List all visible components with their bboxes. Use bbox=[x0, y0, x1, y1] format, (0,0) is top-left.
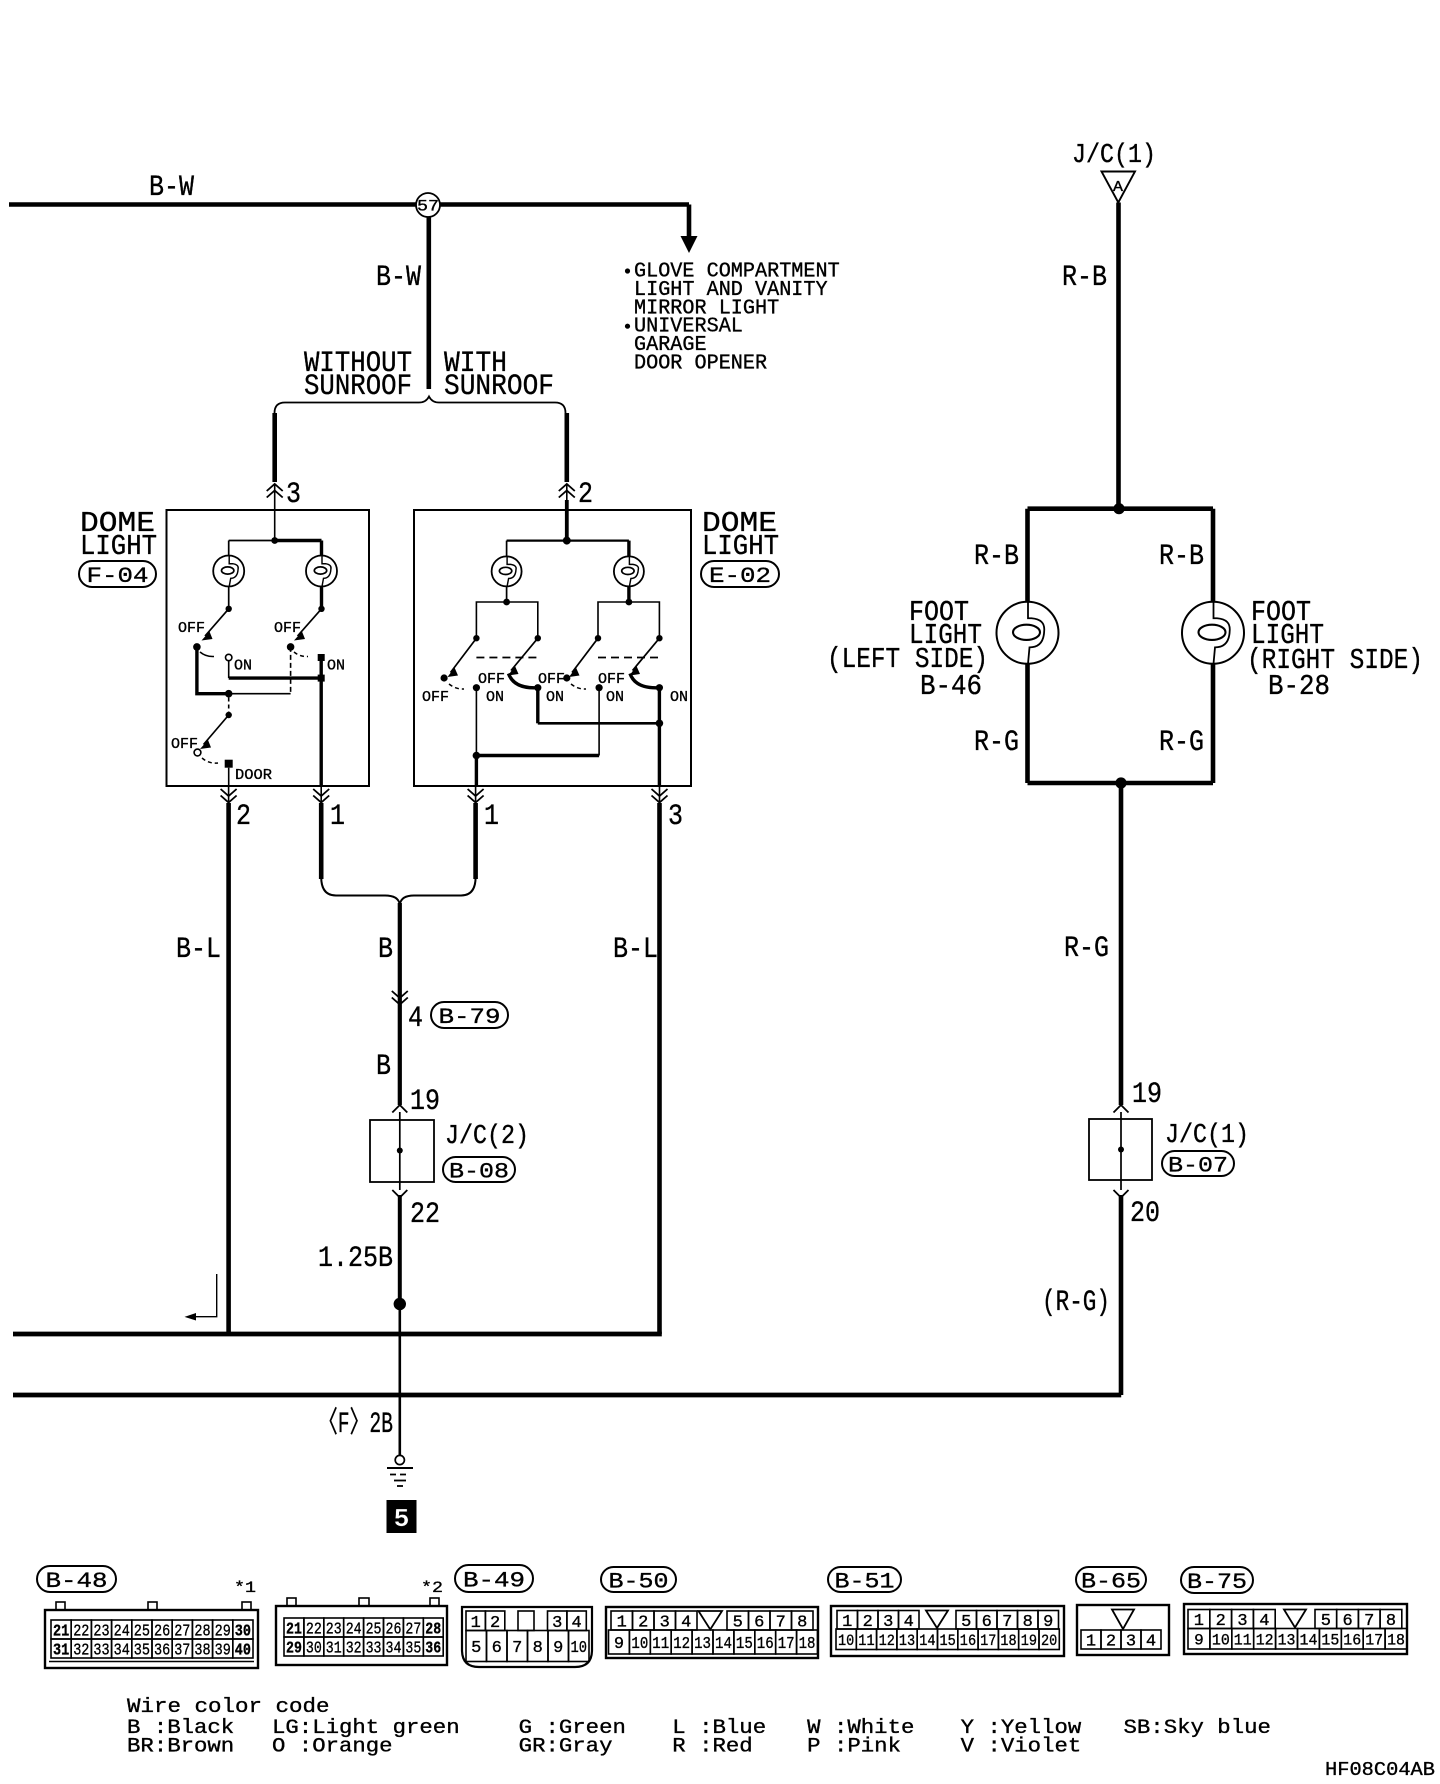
connector pin 2 chevron (E-02 entry) bbox=[559, 484, 575, 498]
switch E-02 sw2: fixed contact bbox=[535, 635, 541, 641]
svg-text:J/C(2): J/C(2) bbox=[445, 1121, 529, 1151]
node: E-02 right lamp split bbox=[626, 599, 633, 606]
wire E-02 sw2 ON drop bbox=[536, 688, 539, 724]
lamp E-02 left bulb bbox=[506, 541, 508, 557]
svg-text:DOOR OPENER: DOOR OPENER bbox=[634, 353, 767, 376]
svg-text:9: 9 bbox=[553, 1639, 563, 1658]
contact ON (F-04 left sw) bbox=[226, 654, 232, 660]
switch F-04 right: blade to OFF bbox=[298, 609, 322, 636]
svg-text:10: 10 bbox=[838, 1632, 854, 1650]
svg-text:4: 4 bbox=[1146, 1633, 1156, 1652]
svg-text:ON: ON bbox=[670, 690, 688, 706]
wire F-04 pin2 drop (door feed) bbox=[228, 768, 230, 786]
connector pin 3 chevron (E-02 bottom) bbox=[652, 789, 668, 803]
ground symbol body 5 bbox=[395, 1455, 404, 1464]
switch E-02 sw1: fixed contact bbox=[473, 635, 479, 641]
svg-text:1: 1 bbox=[330, 799, 345, 833]
connector ref B-50 bbox=[601, 1567, 676, 1592]
svg-text:14: 14 bbox=[1300, 1632, 1318, 1650]
svg-text:33: 33 bbox=[93, 1642, 109, 1661]
switch E-02 sw1: pivot bbox=[441, 674, 448, 681]
connector ref F-04 bbox=[79, 561, 156, 587]
svg-text:(R-G): (R-G) bbox=[1042, 1285, 1110, 1319]
svg-text:20: 20 bbox=[1130, 1196, 1160, 1230]
wire F-04 left pivot to lower bus bbox=[197, 647, 229, 694]
connector *2 pinout bbox=[276, 1606, 447, 1665]
node: foot light feed split bbox=[1113, 503, 1124, 514]
wire B (joined dome light return) bbox=[398, 903, 402, 1105]
svg-text:19: 19 bbox=[1021, 1632, 1037, 1650]
svg-text:8: 8 bbox=[533, 1639, 543, 1658]
svg-text:ON: ON bbox=[327, 659, 345, 675]
svg-text:R :Red: R :Red bbox=[672, 1736, 752, 1759]
ground bus 2 (foot lights) bbox=[13, 1393, 1121, 1398]
svg-text:10: 10 bbox=[571, 1639, 588, 1658]
svg-text:7: 7 bbox=[512, 1639, 522, 1658]
wire B-W main feed (horizontal) bbox=[9, 202, 689, 207]
wire B-L left (F-04 pin2 to ground bus) bbox=[226, 803, 231, 1334]
junction triangle A bbox=[1102, 172, 1136, 203]
svg-text:12: 12 bbox=[673, 1635, 690, 1654]
svg-text:10: 10 bbox=[631, 1635, 648, 1654]
svg-text:1: 1 bbox=[484, 799, 499, 833]
svg-text:2: 2 bbox=[578, 477, 593, 511]
svg-text:9: 9 bbox=[1194, 1632, 1204, 1650]
wire (R-G) (J/C(1) to ground bus 2) bbox=[1119, 1195, 1124, 1395]
svg-text:Wire color code: Wire color code bbox=[127, 1696, 330, 1719]
travel line E-02 left pair bbox=[476, 657, 537, 659]
svg-text:36: 36 bbox=[154, 1642, 170, 1661]
svg-text:38: 38 bbox=[194, 1642, 210, 1661]
svg-text:19: 19 bbox=[1132, 1077, 1162, 1111]
svg-text:2: 2 bbox=[1106, 1633, 1116, 1652]
svg-text:B-51: B-51 bbox=[835, 1569, 895, 1595]
wire without-sunroof branch (B-W) bbox=[272, 413, 277, 482]
node: E-02 pin3 junction bbox=[656, 720, 664, 728]
merge brace (pins 1 join to wire B) bbox=[321, 877, 400, 904]
wire E-02 pin1 drop (B) bbox=[473, 803, 478, 879]
svg-text:11: 11 bbox=[1234, 1632, 1252, 1650]
svg-text:F-04: F-04 bbox=[87, 563, 149, 589]
switch F-04 right: moving contact bbox=[318, 606, 324, 612]
svg-text:15: 15 bbox=[940, 1632, 956, 1650]
switch F-04 left: moving contact bbox=[226, 606, 232, 612]
svg-text:LIGHT: LIGHT bbox=[80, 530, 157, 563]
svg-text:11: 11 bbox=[858, 1632, 874, 1650]
svg-text:18: 18 bbox=[799, 1635, 816, 1654]
connector ref B-51 bbox=[828, 1567, 901, 1592]
wire E-02 sw4 ON to pin3 bbox=[658, 688, 661, 786]
contact ON (F-04 right sw) bbox=[318, 654, 325, 661]
wire R-G (foot lights to J/C(1)) bbox=[1119, 783, 1124, 1105]
svg-text:9: 9 bbox=[614, 1635, 624, 1654]
connector B-48 pinout bbox=[45, 1610, 258, 1668]
contact ON (E-02 sw2) bbox=[534, 684, 541, 691]
switch E-02 sw4: fixed contact bbox=[656, 635, 662, 641]
svg-text:BR:Brown: BR:Brown bbox=[127, 1736, 234, 1759]
wire F-04 pin1 drop (B) bbox=[319, 803, 324, 879]
switch E-02 sw4: blade (ON position) bbox=[633, 638, 660, 670]
svg-text:B-46: B-46 bbox=[920, 670, 982, 703]
svg-text:B-48: B-48 bbox=[46, 1568, 108, 1594]
wire E-02 left lamp stubs bbox=[476, 602, 537, 636]
svg-text:31: 31 bbox=[326, 1640, 342, 1659]
svg-text:R-G: R-G bbox=[1159, 725, 1204, 759]
svg-text:15: 15 bbox=[1321, 1632, 1339, 1650]
switch F-04 door: pivot bbox=[194, 749, 201, 756]
wire F-04 lamp bus bbox=[229, 540, 275, 542]
svg-text:16: 16 bbox=[757, 1635, 774, 1654]
svg-text:B-49: B-49 bbox=[463, 1568, 525, 1594]
svg-text:B-W: B-W bbox=[149, 170, 194, 204]
switch F-04 door: moving contact bbox=[226, 712, 232, 718]
svg-text:3: 3 bbox=[1126, 1633, 1136, 1652]
wire to door switch bbox=[228, 698, 230, 713]
connector B-51 pinout bbox=[831, 1606, 1064, 1656]
wire B-W vertical drop from splice 57 bbox=[426, 217, 431, 389]
connector pin 1 chevron (F-04 bottom) bbox=[313, 789, 329, 803]
svg-text:LIGHT: LIGHT bbox=[702, 530, 779, 563]
node: foot light return join bbox=[1115, 777, 1126, 788]
switch E-02 sw3: fixed contact bbox=[595, 635, 601, 641]
ground ref frame 5 bbox=[387, 1500, 417, 1533]
lamp F-04 right bulb bbox=[320, 541, 323, 557]
connector ref B-75 bbox=[1181, 1567, 1253, 1593]
svg-text:34: 34 bbox=[114, 1642, 130, 1661]
wire foot light left return (R-G) bbox=[1025, 664, 1030, 783]
wire foot light left leg (R-B) bbox=[1025, 509, 1030, 602]
ground bus 1 (dome lights) bbox=[13, 1332, 662, 1337]
svg-text:B-L: B-L bbox=[613, 932, 658, 966]
svg-text:GR:Gray: GR:Gray bbox=[519, 1736, 613, 1759]
lamp F-04 left bulb bbox=[228, 541, 230, 557]
svg-text:R-G: R-G bbox=[1064, 931, 1109, 965]
switch E-02 sw2: blade (ON position) bbox=[511, 638, 538, 670]
wire 1.25B (J/C(2) to ground) bbox=[398, 1195, 402, 1310]
switch E-02 sw3: pivot bbox=[563, 674, 570, 681]
svg-text:57: 57 bbox=[417, 198, 439, 216]
svg-text:13: 13 bbox=[899, 1632, 915, 1650]
wire E-02 sw1 ON to pin1 node bbox=[475, 688, 477, 756]
joint connector J/C(2) pin 22 chevron bbox=[392, 1190, 407, 1198]
svg-text:ON: ON bbox=[546, 690, 564, 706]
svg-text:B-75: B-75 bbox=[1187, 1569, 1247, 1595]
svg-text:OFF: OFF bbox=[598, 672, 625, 688]
switch F-04 right: pivot bbox=[287, 643, 295, 651]
page reference arrow (ground bus continues) bbox=[188, 1274, 217, 1317]
svg-text:B: B bbox=[378, 932, 393, 966]
svg-text:6: 6 bbox=[492, 1639, 502, 1658]
svg-text:R-G: R-G bbox=[974, 725, 1019, 759]
svg-text:〈F〉2B: 〈F〉2B bbox=[318, 1407, 393, 1441]
svg-text:14: 14 bbox=[715, 1635, 732, 1654]
joint connector J/C(2) pin 19 chevron bbox=[392, 1105, 407, 1113]
svg-text:*2: *2 bbox=[421, 1579, 443, 1597]
wire E-02 right lamp stubs bbox=[598, 602, 659, 636]
travel line E-02 right pair bbox=[598, 657, 659, 659]
svg-text:35: 35 bbox=[134, 1642, 150, 1661]
connector ref B-07 bbox=[1162, 1151, 1234, 1176]
connector B-49 pinout bbox=[462, 1607, 592, 1667]
svg-text:22: 22 bbox=[410, 1197, 440, 1231]
connector ref E-02 bbox=[701, 561, 779, 587]
svg-text:10: 10 bbox=[1212, 1632, 1230, 1650]
svg-text:12: 12 bbox=[879, 1632, 895, 1650]
svg-text:13: 13 bbox=[694, 1635, 711, 1654]
connector ref B-48 bbox=[37, 1566, 116, 1592]
connector B-50 pinout bbox=[606, 1607, 818, 1658]
svg-text:E-02: E-02 bbox=[709, 563, 771, 589]
switch F-04 left: blade to OFF bbox=[205, 609, 229, 636]
svg-text:17: 17 bbox=[778, 1635, 795, 1654]
dome light E-02 box bbox=[414, 510, 691, 786]
svg-text:J/C(1): J/C(1) bbox=[1165, 1120, 1249, 1150]
switch E-02 sw3: blade bbox=[572, 638, 598, 672]
wire with-sunroof branch (B-W) bbox=[564, 413, 569, 482]
label glove compartment light and vanity mirror light / universal garage door opener bbox=[625, 268, 630, 273]
svg-text:18: 18 bbox=[1387, 1632, 1405, 1650]
svg-text:35: 35 bbox=[405, 1640, 421, 1659]
svg-text:37: 37 bbox=[174, 1642, 190, 1661]
svg-text:1.25B: 1.25B bbox=[318, 1241, 393, 1275]
svg-text:13: 13 bbox=[1278, 1632, 1296, 1650]
connector ref B-79 bbox=[431, 1002, 508, 1028]
svg-text:SUNROOF: SUNROOF bbox=[444, 369, 554, 403]
svg-text:36: 36 bbox=[425, 1640, 441, 1659]
wire foot light loop top bbox=[1028, 506, 1214, 511]
contact ON (E-02 sw4) bbox=[656, 684, 663, 691]
svg-text:4: 4 bbox=[408, 1001, 423, 1035]
svg-text:1: 1 bbox=[1086, 1633, 1096, 1652]
connector pin 2 chevron (F-04 bottom) bbox=[221, 789, 237, 803]
svg-text:HF08C04AB: HF08C04AB bbox=[1325, 1759, 1435, 1781]
joint connector J/C(1) pin 20 chevron bbox=[1114, 1190, 1129, 1198]
switch F-04 door: blade to OFF bbox=[204, 715, 229, 745]
svg-text:40: 40 bbox=[235, 1642, 251, 1661]
svg-text:ON: ON bbox=[234, 659, 252, 675]
svg-text:B-65: B-65 bbox=[1081, 1569, 1141, 1595]
svg-text:OFF: OFF bbox=[274, 621, 301, 637]
svg-text:33: 33 bbox=[366, 1640, 382, 1659]
foot light right bulb (B-28) bbox=[1182, 602, 1244, 664]
wire F-04 right pivot down-left to lower bus bbox=[290, 647, 292, 694]
svg-text:R-B: R-B bbox=[1062, 260, 1107, 294]
wire foot light right leg (R-B) bbox=[1211, 509, 1216, 602]
wire E-02 pin1 drop bbox=[475, 756, 478, 787]
joint connector J/C(1) box bbox=[1089, 1119, 1152, 1180]
switch F-04 left: pivot bbox=[193, 643, 201, 651]
svg-text:SUNROOF: SUNROOF bbox=[304, 369, 412, 403]
wire foot light loop bottom bbox=[1028, 781, 1214, 786]
svg-text:B-50: B-50 bbox=[609, 1569, 669, 1595]
wire F-04 left ON to crossbar bbox=[228, 661, 230, 678]
node: E-02 pin1 junction bbox=[473, 752, 481, 760]
svg-text:B-08: B-08 bbox=[449, 1159, 509, 1185]
connector ref B-08 bbox=[443, 1157, 515, 1182]
svg-text:3: 3 bbox=[286, 477, 301, 511]
node: F-04 lower junction bbox=[225, 690, 233, 698]
svg-text:B: B bbox=[376, 1049, 391, 1083]
wire F-04 pin1 vertical (ON feed) bbox=[320, 658, 323, 787]
svg-text:15: 15 bbox=[736, 1635, 753, 1654]
svg-text:*1: *1 bbox=[234, 1579, 256, 1597]
node: F-04 pin3 internal junction bbox=[271, 537, 278, 544]
node: E-02 pin2 internal junction bbox=[563, 537, 571, 545]
svg-text:OFF: OFF bbox=[478, 672, 505, 688]
wire E-02 sw3 ON drop bbox=[598, 688, 600, 756]
connector B-79 chevron (pin 4) bbox=[392, 991, 408, 1005]
svg-text:5: 5 bbox=[394, 1504, 410, 1534]
svg-text:R-B: R-B bbox=[1159, 539, 1204, 573]
contact ON (E-02 sw1) bbox=[473, 684, 480, 691]
splice 57 bbox=[416, 193, 440, 217]
svg-text:16: 16 bbox=[960, 1632, 976, 1650]
svg-text:SB:Sky blue: SB:Sky blue bbox=[1124, 1717, 1271, 1740]
svg-text:39: 39 bbox=[215, 1642, 231, 1661]
wire E-02 pin2 entry bbox=[565, 500, 569, 541]
svg-text:18: 18 bbox=[1000, 1632, 1016, 1650]
sunroof option split brace bbox=[275, 397, 566, 414]
svg-text:31: 31 bbox=[53, 1642, 69, 1661]
connector pin 1 chevron (E-02 bottom) bbox=[468, 789, 484, 803]
svg-text:30: 30 bbox=[306, 1640, 322, 1659]
connector pin 3 chevron (F-04 entry) bbox=[267, 484, 283, 498]
wire F-04 ON crossbar bbox=[229, 676, 322, 679]
svg-text:32: 32 bbox=[73, 1642, 89, 1661]
wire E-02 lower crossbar (pin1 to sw3) bbox=[476, 754, 599, 758]
connector B-65 pinout bbox=[1077, 1605, 1169, 1655]
svg-text:DOOR: DOOR bbox=[235, 767, 272, 784]
joint connector J/C(1) pin 19 chevron bbox=[1114, 1105, 1129, 1113]
contact DOOR (F-04) bbox=[225, 760, 233, 768]
svg-text:V :Violet: V :Violet bbox=[961, 1736, 1082, 1759]
svg-text:OFF: OFF bbox=[178, 621, 205, 637]
node: E-02 left lamp split bbox=[503, 599, 510, 606]
svg-text:OFF: OFF bbox=[538, 672, 565, 688]
foot light left bulb (B-46) bbox=[997, 602, 1059, 664]
svg-text:B-07: B-07 bbox=[1168, 1153, 1228, 1179]
connector ref B-65 bbox=[1076, 1567, 1146, 1592]
svg-text:B-W: B-W bbox=[376, 260, 421, 294]
svg-text:14: 14 bbox=[919, 1632, 935, 1650]
svg-text:17: 17 bbox=[1365, 1632, 1383, 1650]
svg-text:ON: ON bbox=[606, 690, 624, 706]
svg-text:19: 19 bbox=[410, 1084, 440, 1118]
connector ref B-49 bbox=[455, 1565, 533, 1592]
wire to glove compartment light (right turn + arrow) bbox=[687, 205, 692, 239]
wire foot light right return (R-G) bbox=[1211, 664, 1216, 783]
svg-text:3: 3 bbox=[668, 799, 683, 833]
svg-text:ON: ON bbox=[486, 690, 504, 706]
dome light F-04 box bbox=[167, 510, 370, 786]
joint connector J/C(2) box bbox=[370, 1120, 434, 1182]
svg-text:OFF: OFF bbox=[422, 690, 449, 706]
svg-text:20: 20 bbox=[1041, 1632, 1057, 1650]
svg-text:16: 16 bbox=[1343, 1632, 1361, 1650]
contact ON (E-02 sw3) bbox=[596, 684, 603, 691]
svg-text:34: 34 bbox=[386, 1640, 402, 1659]
svg-text:29: 29 bbox=[286, 1640, 302, 1659]
switch E-02 sw1: blade bbox=[451, 638, 477, 672]
svg-text:12: 12 bbox=[1256, 1632, 1274, 1650]
svg-text:5: 5 bbox=[471, 1639, 481, 1658]
wire B-L right (E-02 pin3 to ground bus) bbox=[657, 803, 662, 1334]
svg-text:2: 2 bbox=[236, 799, 251, 833]
svg-text:R-B: R-B bbox=[974, 539, 1019, 573]
connector B-75 pinout bbox=[1184, 1604, 1407, 1654]
svg-text:P :Pink: P :Pink bbox=[807, 1736, 901, 1759]
svg-text:J/C(1): J/C(1) bbox=[1072, 140, 1156, 170]
svg-text:32: 32 bbox=[346, 1640, 362, 1659]
svg-text:B-79: B-79 bbox=[439, 1004, 501, 1030]
svg-text:O :Orange: O :Orange bbox=[272, 1736, 393, 1759]
svg-text:B-28: B-28 bbox=[1268, 670, 1330, 703]
wire E-02 lamp bus bbox=[507, 539, 629, 541]
svg-text:A: A bbox=[1113, 179, 1123, 196]
lamp E-02 right bulb bbox=[627, 541, 630, 557]
node: ground splice on wire B bbox=[394, 1298, 406, 1310]
svg-text:B-L: B-L bbox=[176, 932, 221, 966]
wire E-02 mid crossbar (sw2 to sw4/pin3) bbox=[538, 722, 660, 725]
svg-text:11: 11 bbox=[652, 1635, 669, 1654]
wire R-B (J/C(1) to foot lights) bbox=[1116, 203, 1121, 510]
svg-text:17: 17 bbox=[980, 1632, 996, 1650]
